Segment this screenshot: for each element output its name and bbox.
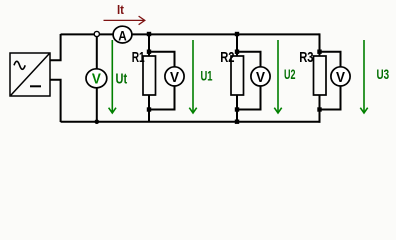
node: hollow junction top of Ut branch [94,31,99,36]
svg-text:V: V [92,70,101,87]
wire: source bottom stub [50,80,61,122]
wire: branch 3 vertical [319,33,321,122]
svg-text:A: A [118,27,127,43]
svg-text:U1: U1 [201,68,213,84]
wire: Ut branch vertical [96,34,98,122]
svg-text:R1: R1 [132,49,145,66]
svg-text:V: V [170,69,179,86]
resistor R1 [143,56,156,95]
resistor R2 [231,56,244,95]
node: junction branch 2 top [235,32,239,36]
wire: voltmeter loop 1 [149,52,175,110]
power source G1 (AC/DC converter) [10,53,50,96]
voltage arrow U1 [189,40,196,113]
svg-text:V: V [336,69,345,86]
wire: voltmeter loop 2 [237,52,261,110]
node: junction branch 2 bottom [235,120,239,124]
svg-text:V: V [256,69,265,86]
wire: source top stub [50,34,61,60]
voltage arrow U2 [274,40,281,113]
voltage arrow U3 [360,40,367,113]
voltmeter V (U1) [165,67,184,86]
node: junction loop2 top [235,50,239,54]
node: junction loop2 bottom [235,107,239,111]
voltmeter V (Ut) [86,69,107,88]
current arrow It [104,16,145,25]
node: junction loop1 top [147,50,151,54]
svg-text:R2: R2 [220,49,234,66]
voltmeter V (U2) [251,67,270,86]
svg-text:Ut: Ut [116,71,128,88]
node: junction loop3 top [317,50,321,54]
node: junction branch 1 top [147,32,151,36]
svg-text:U3: U3 [377,66,390,82]
svg-text:It: It [117,2,125,17]
svg-text:R3: R3 [299,49,313,66]
node: junction loop3 bottom [317,107,321,111]
voltage arrow Ut [109,40,116,113]
ammeter A [113,26,132,43]
wire: voltmeter loop 3 [320,52,341,110]
wire: branch 2 vertical [236,34,238,122]
resistor R3 [314,56,327,95]
voltmeter V (U3) [331,67,350,86]
wire: branch 1 vertical [148,34,150,122]
svg-text:U2: U2 [284,66,296,82]
node: junction loop1 bottom [147,107,151,111]
node: junction bottom of Ut branch [95,119,100,124]
wire: top rail [61,33,320,35]
wire: bottom rail [61,121,321,123]
